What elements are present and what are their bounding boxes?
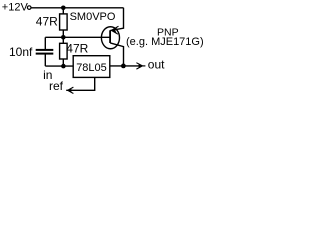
wire: R1 bottom stub xyxy=(62,30,64,37)
resistor R2 47R body xyxy=(60,43,68,59)
svg-text:SM0VPO: SM0VPO xyxy=(70,11,116,23)
wire: capacitor top riser xyxy=(44,37,46,49)
transistor Q1 emitter lead xyxy=(110,8,123,31)
transistor Q1 PNP body circle xyxy=(101,27,119,49)
svg-text:47R: 47R xyxy=(66,42,88,56)
arrowhead: out xyxy=(136,63,145,69)
node: base net junction xyxy=(61,35,66,40)
svg-text:out: out xyxy=(148,58,165,72)
wire: capacitor bottom riser xyxy=(44,54,46,66)
transistor Q1 collector lead xyxy=(110,43,123,66)
resistor R1 47R body xyxy=(60,14,68,30)
wire: input net horizontal xyxy=(45,65,73,67)
transistor Q1 emitter PNP arrow xyxy=(111,26,118,34)
svg-text:ref: ref xyxy=(49,79,64,93)
node: rail / R1 junction xyxy=(61,6,66,11)
wire: R2 top stub xyxy=(62,37,64,43)
capacitor C1 bottom plate xyxy=(36,53,54,55)
arrowhead: ref xyxy=(68,87,74,93)
wire: base net horizontal xyxy=(45,36,109,38)
svg-text:47R: 47R xyxy=(36,14,58,28)
transistor Q1 base bar xyxy=(109,30,111,43)
wire: R1 top stub xyxy=(62,8,64,14)
capacitor C1 top plate xyxy=(36,49,54,51)
svg-text:(e.g. MJE171G): (e.g. MJE171G) xyxy=(126,36,204,48)
node: input net junction xyxy=(61,64,66,69)
wire: R2 bottom stub xyxy=(62,59,64,66)
node: output net junction xyxy=(121,64,126,69)
regulator U1 78L05 body xyxy=(73,56,110,78)
wire: +12V top rail xyxy=(31,7,124,9)
+12V supply terminal xyxy=(27,6,31,10)
svg-text:78L05: 78L05 xyxy=(76,62,107,74)
svg-text:10nf: 10nf xyxy=(9,45,33,59)
wire: ref pin drop from regulator xyxy=(66,77,95,90)
wire: output net horizontal xyxy=(110,65,141,67)
svg-text:+12V: +12V xyxy=(2,2,29,14)
